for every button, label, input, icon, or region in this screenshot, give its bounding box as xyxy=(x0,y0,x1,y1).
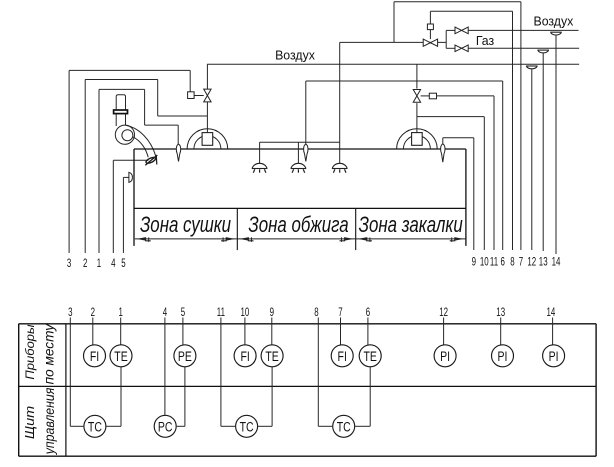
svg-text:10: 10 xyxy=(240,306,249,319)
svg-text:12: 12 xyxy=(527,256,536,269)
svg-text:TC: TC xyxy=(240,419,254,435)
svg-text:Воздух: Воздух xyxy=(275,48,315,62)
svg-text:14: 14 xyxy=(546,306,555,319)
svg-text:TE: TE xyxy=(114,349,127,365)
svg-text:8: 8 xyxy=(314,306,319,319)
svg-text:9: 9 xyxy=(472,256,477,269)
svg-text:7: 7 xyxy=(338,306,343,319)
svg-text:PI: PI xyxy=(440,349,450,365)
svg-text:6: 6 xyxy=(366,306,371,319)
svg-text:Зона обжига: Зона обжига xyxy=(248,213,348,238)
svg-text:FI: FI xyxy=(240,349,249,365)
svg-text:Приборы: Приборы xyxy=(23,324,36,379)
svg-text:TC: TC xyxy=(337,419,351,435)
svg-text:по месту: по месту xyxy=(41,323,56,385)
svg-text:10: 10 xyxy=(480,256,489,269)
svg-text:FI: FI xyxy=(338,349,347,365)
svg-text:2: 2 xyxy=(83,257,88,270)
svg-text:13: 13 xyxy=(496,306,505,319)
svg-text:1: 1 xyxy=(97,257,102,270)
svg-text:11: 11 xyxy=(217,306,225,319)
svg-text:управления: управления xyxy=(42,388,58,455)
svg-text:3: 3 xyxy=(68,306,73,319)
svg-text:13: 13 xyxy=(539,256,548,269)
svg-text:TC: TC xyxy=(88,419,102,435)
svg-text:Газ: Газ xyxy=(476,34,495,48)
svg-text:4: 4 xyxy=(111,257,116,270)
svg-text:4: 4 xyxy=(163,306,168,319)
svg-text:Зона сушки: Зона сушки xyxy=(140,213,231,238)
svg-text:PI: PI xyxy=(498,349,508,365)
svg-text:TE: TE xyxy=(363,349,376,365)
svg-text:PE: PE xyxy=(178,349,192,365)
svg-text:2: 2 xyxy=(91,306,96,319)
svg-text:14: 14 xyxy=(552,256,561,269)
svg-text:7: 7 xyxy=(519,256,524,269)
svg-text:11: 11 xyxy=(490,256,498,269)
svg-text:Щит: Щит xyxy=(22,406,36,439)
svg-text:FI: FI xyxy=(90,349,99,365)
svg-text:PI: PI xyxy=(549,349,559,365)
svg-text:3: 3 xyxy=(67,257,72,270)
svg-text:1: 1 xyxy=(118,306,123,319)
svg-text:8: 8 xyxy=(510,256,515,269)
svg-text:Зона закалки: Зона закалки xyxy=(359,213,463,238)
svg-text:5: 5 xyxy=(121,257,126,270)
svg-text:PC: PC xyxy=(158,419,173,435)
svg-text:Воздух: Воздух xyxy=(533,14,573,28)
svg-text:6: 6 xyxy=(500,256,505,269)
svg-text:TE: TE xyxy=(265,349,278,365)
svg-text:9: 9 xyxy=(270,306,275,319)
svg-text:12: 12 xyxy=(439,306,448,319)
svg-text:5: 5 xyxy=(181,306,186,319)
